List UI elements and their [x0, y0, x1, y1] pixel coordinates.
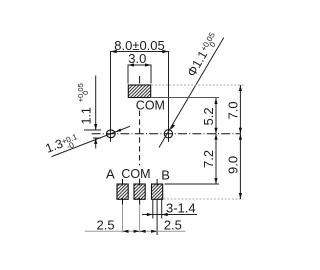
vertical centerline through COM pads: [139, 76, 141, 186]
dimension 8.0±0.05: [111, 50, 169, 142]
svg-text:5.2: 5.2: [201, 107, 216, 125]
dimension 3.0: [128, 63, 151, 83]
svg-text:A: A: [106, 167, 115, 182]
horizontal centerline: [92, 133, 241, 135]
svg-text:7.0: 7.0: [226, 101, 241, 119]
svg-text:COM: COM: [121, 167, 150, 181]
dimension 7.2: [165, 134, 220, 184]
svg-text:COM: COM: [136, 98, 165, 112]
svg-text:8.0±0.05: 8.0±0.05: [114, 38, 165, 53]
svg-text:B: B: [161, 167, 170, 182]
svg-text:9.0: 9.0: [226, 156, 241, 174]
svg-text:3.0: 3.0: [128, 51, 146, 66]
svg-text:3-1.4: 3-1.4: [166, 201, 196, 216]
svg-text:1.1: 1.1: [80, 107, 94, 124]
dimension 7.0: [152, 85, 244, 134]
svg-text:2.5: 2.5: [97, 217, 115, 232]
slot hole left 1.3x1.1: [106, 130, 115, 138]
bottom pad COM: [134, 184, 145, 205]
dimension 1.1 +0.05/0 (left): [84, 76, 101, 149]
leader dia1.1 +0.05/0: [159, 30, 224, 147]
bottom pad A: [117, 179, 128, 205]
leader 1.3 +0.1/-0: [44, 126, 130, 156]
dimension 3-1.4: [142, 200, 197, 219]
svg-text:2.5: 2.5: [164, 217, 182, 232]
dimension 9.0: [164, 134, 244, 199]
dimension 5.2: [152, 98, 220, 134]
hole right dia 1.1: [164, 130, 172, 138]
bottom pad B: [152, 179, 163, 199]
svg-text:0: 0: [81, 91, 90, 95]
top land pad P1 (COM top): [128, 85, 150, 98]
svg-text:7.2: 7.2: [201, 150, 216, 168]
dimension chain 2.5 / 2.5: [85, 200, 186, 236]
